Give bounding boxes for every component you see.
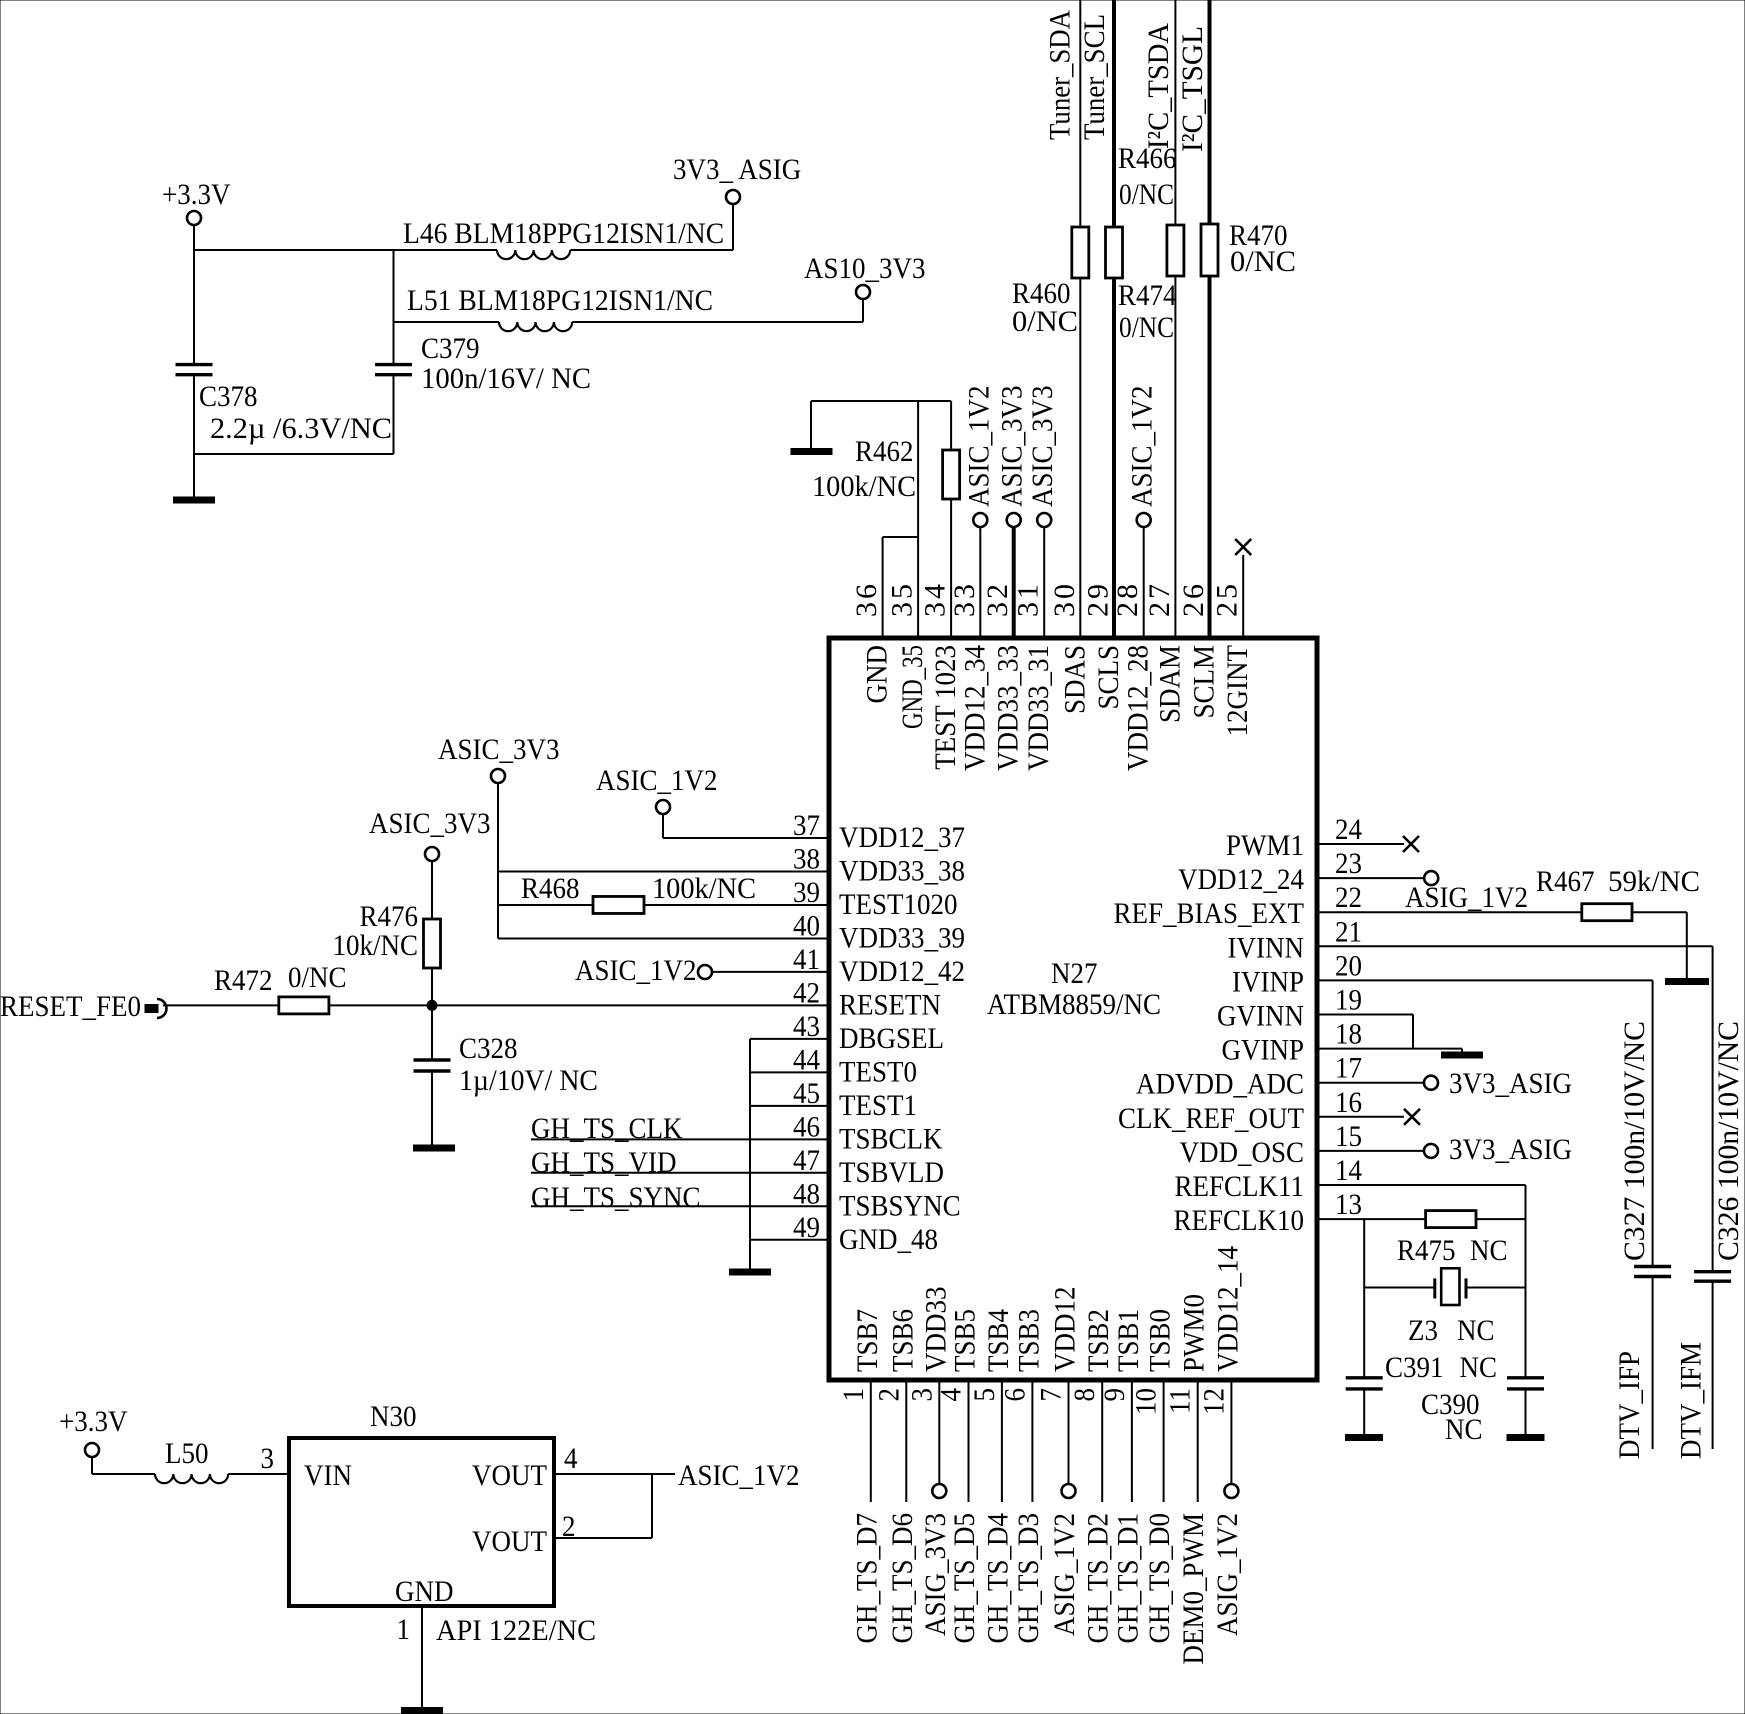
svg-text:13: 13 [1335,1188,1362,1221]
svg-text:100k/NC: 100k/NC [652,872,756,905]
svg-text:ASIG_3V3: ASIG_3V3 [919,1513,952,1636]
svg-text:TSB6: TSB6 [886,1309,919,1372]
svg-text:1: 1 [397,1613,411,1646]
svg-text:GND_35: GND_35 [896,645,929,729]
svg-text:PWM1: PWM1 [1226,829,1304,862]
svg-text:1: 1 [837,1388,870,1402]
svg-text:0/NC: 0/NC [1119,178,1174,211]
svg-text:L51 BLM18PG12ISN1/NC: L51 BLM18PG12ISN1/NC [407,284,713,317]
svg-text:Tuner_SCL: Tuner_SCL [1078,14,1111,140]
svg-text:16: 16 [1335,1086,1362,1119]
svg-text:GH_TS_D2: GH_TS_D2 [1082,1513,1115,1644]
svg-text:7: 7 [1035,1388,1068,1402]
svg-text:Tuner_SDA: Tuner_SDA [1044,10,1077,140]
svg-text:N27: N27 [1051,957,1098,990]
svg-text:CLK_REF_OUT: CLK_REF_OUT [1118,1102,1304,1135]
svg-text:TEST1020: TEST1020 [839,888,958,921]
svg-text:C378: C378 [199,380,258,413]
svg-text:TSBCLK: TSBCLK [839,1122,943,1155]
svg-text:12GINT: 12GINT [1221,645,1254,737]
svg-text:VOUT: VOUT [472,1525,547,1558]
svg-text:0/NC: 0/NC [288,961,347,994]
svg-text:SDAS: SDAS [1058,645,1091,714]
svg-text:R466: R466 [1118,142,1177,175]
svg-text:VDD12_37: VDD12_37 [839,821,965,854]
svg-text:ATBM8859/NC: ATBM8859/NC [987,988,1161,1021]
svg-text:TSB5: TSB5 [949,1309,982,1372]
svg-text:I²C_TSDA: I²C_TSDA [1142,23,1175,149]
svg-text:ASIC_1V2: ASIC_1V2 [962,386,995,508]
svg-text:API 122E/NC: API 122E/NC [436,1614,596,1647]
svg-text:TSB3: TSB3 [1012,1309,1045,1372]
svg-text:3: 3 [261,1442,275,1475]
svg-text:22: 22 [1335,881,1362,914]
svg-text:SCLS: SCLS [1092,645,1125,710]
svg-text:Z3: Z3 [1408,1314,1438,1347]
svg-text:TSBSYNC: TSBSYNC [839,1189,961,1222]
svg-text:ASIC_3V3: ASIC_3V3 [438,733,560,766]
svg-text:RESET_FE0: RESET_FE0 [0,990,141,1023]
svg-text:ASIC_3V3: ASIC_3V3 [369,807,491,840]
svg-text:IVINP: IVINP [1232,965,1304,998]
svg-text:GH_TS_D0: GH_TS_D0 [1143,1513,1176,1644]
svg-text:GND_48: GND_48 [839,1223,938,1256]
svg-text:TSB0: TSB0 [1144,1309,1177,1372]
svg-text:NC: NC [1445,1413,1483,1446]
svg-text:10: 10 [1130,1388,1163,1415]
svg-text:10k/NC: 10k/NC [333,929,419,962]
svg-text:ASIG_1V2: ASIG_1V2 [1211,1513,1244,1636]
svg-text:TSBVLD: TSBVLD [839,1156,944,1189]
svg-text:N30: N30 [370,1400,417,1433]
svg-text:TSB7: TSB7 [851,1309,884,1372]
svg-text:R475: R475 [1397,1234,1456,1267]
svg-text:IVINN: IVINN [1228,931,1305,964]
svg-text:DTV_IFM: DTV_IFM [1675,1342,1708,1459]
svg-text:AS10_3V3: AS10_3V3 [804,252,926,285]
svg-text:GVINP: GVINP [1222,1034,1305,1067]
svg-text:VDD12_24: VDD12_24 [1178,863,1304,896]
svg-text:VDD33_38: VDD33_38 [839,854,965,887]
svg-text:VDD12_42: VDD12_42 [839,955,965,988]
svg-text:R468: R468 [521,872,580,905]
svg-text:GVINN: GVINN [1217,1000,1304,1033]
svg-text:TSB4: TSB4 [982,1309,1015,1372]
svg-text:SCLM: SCLM [1188,645,1221,719]
svg-text:NC: NC [1460,1351,1498,1384]
svg-text:VIN: VIN [304,1459,352,1492]
svg-text:GH_TS_D1: GH_TS_D1 [1111,1513,1144,1644]
svg-text:0/NC: 0/NC [1012,305,1078,338]
svg-text:REFCLK11: REFCLK11 [1175,1170,1305,1203]
svg-text:1µ/10V/ NC: 1µ/10V/ NC [459,1064,598,1097]
svg-text:DTV_IFP: DTV_IFP [1613,1351,1646,1459]
svg-text:TEST1: TEST1 [839,1089,917,1122]
svg-text:R462: R462 [855,435,914,468]
svg-text:GND: GND [861,645,894,704]
svg-text:3V3_ASIG: 3V3_ASIG [1449,1133,1572,1166]
svg-text:TSB2: TSB2 [1082,1309,1115,1372]
svg-text:2.2µ /6.3V/NC: 2.2µ /6.3V/NC [210,412,392,445]
svg-text:R467: R467 [1536,865,1595,898]
svg-text:L46 BLM18PPG12ISN1/NC: L46 BLM18PPG12ISN1/NC [403,217,724,250]
svg-text:GH_TS_VID: GH_TS_VID [531,1146,677,1179]
svg-text:+3.3V: +3.3V [59,1405,128,1438]
svg-text:ASIC_1V2: ASIC_1V2 [1126,386,1159,508]
svg-text:GH_TS_D7: GH_TS_D7 [850,1513,883,1644]
svg-text:GH_TS_D3: GH_TS_D3 [1012,1513,1045,1644]
svg-text:24: 24 [1335,813,1362,846]
svg-text:C327 100n/10V/NC: C327 100n/10V/NC [1618,1021,1651,1261]
svg-text:ASIG_1V2: ASIG_1V2 [1048,1513,1081,1636]
svg-text:GH_TS_SYNC: GH_TS_SYNC [531,1181,701,1214]
svg-text:DBGSEL: DBGSEL [839,1022,944,1055]
svg-text:18: 18 [1335,1018,1362,1051]
svg-text:VDD33_31: VDD33_31 [1022,645,1055,771]
svg-text:GND: GND [395,1575,454,1608]
svg-text:C379: C379 [421,332,480,365]
svg-text:VDD33_39: VDD33_39 [839,921,965,954]
svg-text:0/NC: 0/NC [1230,245,1296,278]
svg-text:100k/NC: 100k/NC [812,470,916,503]
svg-text:L50: L50 [165,1437,209,1470]
svg-text:REF_BIAS_EXT: REF_BIAS_EXT [1114,897,1305,930]
svg-text:19: 19 [1335,984,1362,1017]
svg-text:ADVDD_ADC: ADVDD_ADC [1136,1068,1304,1101]
svg-text:ASIC_3V3: ASIC_3V3 [996,386,1029,508]
svg-text:GH_TS_CLK: GH_TS_CLK [531,1112,683,1145]
svg-text:VDD33: VDD33 [919,1287,952,1373]
svg-text:ASIC_1V2: ASIC_1V2 [575,954,697,987]
svg-text:VDD33_33: VDD33_33 [992,645,1025,771]
svg-text:GH_TS_D6: GH_TS_D6 [886,1513,919,1644]
svg-text:ASIG_1V2: ASIG_1V2 [1405,881,1528,914]
svg-text:0/NC: 0/NC [1119,311,1174,344]
svg-text:C326 100n/10V/NC: C326 100n/10V/NC [1712,1021,1745,1261]
svg-text:17: 17 [1335,1052,1362,1085]
svg-text:15: 15 [1335,1120,1362,1153]
svg-text:2: 2 [872,1388,905,1402]
svg-text:21: 21 [1335,915,1362,948]
svg-text:23: 23 [1335,847,1362,880]
svg-text:VDD12_34: VDD12_34 [958,645,991,771]
svg-text:C391: C391 [1385,1351,1444,1384]
svg-text:PWM0: PWM0 [1178,1294,1211,1372]
svg-text:ASIC_1V2: ASIC_1V2 [678,1459,800,1492]
svg-text:3V3_ASIG: 3V3_ASIG [1449,1067,1572,1100]
svg-text:TSB1: TSB1 [1112,1309,1145,1372]
svg-text:GH_TS_D4: GH_TS_D4 [981,1513,1014,1644]
svg-text:20: 20 [1335,949,1362,982]
svg-text:NC: NC [1470,1234,1508,1267]
svg-text:VDD_OSC: VDD_OSC [1180,1136,1305,1169]
svg-text:5: 5 [968,1388,1001,1402]
svg-text:8: 8 [1068,1388,1101,1402]
svg-text:RESETN: RESETN [839,988,941,1021]
svg-text:+3.3V: +3.3V [162,178,231,211]
svg-text:GH_TS_D5: GH_TS_D5 [948,1513,981,1644]
svg-text:C328: C328 [459,1032,518,1065]
svg-text:VDD12_28: VDD12_28 [1122,645,1155,771]
svg-text:ASIC_1V2: ASIC_1V2 [596,764,718,797]
svg-text:6: 6 [998,1388,1031,1402]
svg-text:14: 14 [1335,1154,1362,1187]
svg-text:VDD12_14: VDD12_14 [1211,1246,1244,1372]
svg-text:SDAM: SDAM [1153,645,1186,723]
svg-text:R472: R472 [214,964,273,997]
svg-text:DEM0_PWM: DEM0_PWM [1177,1513,1210,1665]
svg-text:VOUT: VOUT [472,1459,547,1492]
svg-text:I²C_TSGL: I²C_TSGL [1176,26,1209,152]
svg-text:TEST 1023: TEST 1023 [929,645,962,770]
svg-text:ASIC_3V3: ASIC_3V3 [1026,386,1059,508]
svg-text:3: 3 [905,1388,938,1402]
svg-text:3V3_ ASIG: 3V3_ ASIG [673,153,801,186]
svg-text:4: 4 [564,1442,578,1475]
svg-text:12: 12 [1197,1388,1230,1415]
svg-text:VDD12: VDD12 [1049,1287,1082,1373]
svg-text:100n/16V/ NC: 100n/16V/ NC [421,362,591,395]
svg-text:TEST0: TEST0 [839,1055,917,1088]
svg-text:R474: R474 [1118,279,1177,312]
svg-text:REFCLK10: REFCLK10 [1174,1204,1305,1237]
svg-text:NC: NC [1457,1314,1495,1347]
svg-text:59k/NC: 59k/NC [1608,865,1700,898]
svg-text:11: 11 [1164,1388,1197,1414]
